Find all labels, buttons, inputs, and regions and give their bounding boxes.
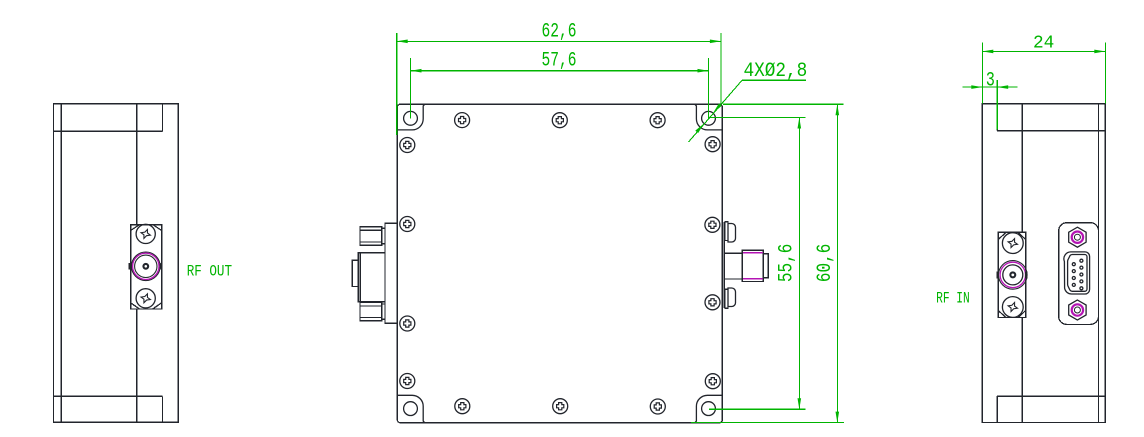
- svg-text:57,6: 57,6: [542, 50, 577, 73]
- svg-text:4XØ2,8: 4XØ2,8: [744, 60, 808, 83]
- svg-text:RF OUT: RF OUT: [187, 263, 232, 281]
- svg-text:55,6: 55,6: [776, 244, 799, 282]
- svg-text:24: 24: [1033, 33, 1054, 54]
- svg-text:60,6: 60,6: [814, 244, 837, 282]
- svg-text:RF IN: RF IN: [936, 289, 970, 307]
- svg-text:3: 3: [986, 69, 995, 92]
- svg-text:62,6: 62,6: [542, 20, 577, 43]
